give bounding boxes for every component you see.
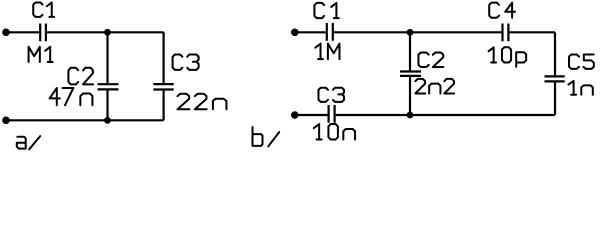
value M1 (circuit a C1): [29, 47, 53, 62]
capacitor C4 (circuit b) plates: [503, 24, 509, 42]
wire circuit b C5 branch lower: [554, 82, 556, 115]
name C3 (circuit b): [318, 88, 344, 102]
terminal node circuit a input top: [2, 29, 10, 37]
wire circuit b bottom rail left: [295, 114, 328, 116]
wire circuit a C3 branch upper: [163, 32, 165, 83]
wire circuit b bottom rail right: [336, 114, 555, 116]
terminal node circuit b input top: [291, 29, 299, 37]
capacitor C5 (circuit b) plates: [545, 76, 565, 81]
junction circuit b bottom: [407, 112, 414, 119]
value 1M (circuit b C1): [315, 44, 339, 60]
wire circuit b C2 branch lower: [409, 77, 411, 115]
wire circuit a C2 branch upper: [106, 32, 108, 83]
junction circuit a top: [104, 29, 111, 36]
capacitor C3 (circuit b) plates: [329, 105, 335, 123]
capacitor C3 (circuit a) plates: [153, 84, 173, 89]
label b/ (sub-figure b): [253, 127, 280, 146]
value 22n (circuit a C3): [177, 94, 226, 110]
capacitor C1 (circuit b) plates: [327, 23, 333, 41]
capacitor C2 (circuit b) plates: [400, 72, 421, 76]
name C2 (circuit a): [68, 68, 93, 85]
name C5 (circuit b): [569, 54, 594, 68]
wire circuit a C3 branch lower: [163, 91, 165, 121]
value 10n (circuit b C3): [314, 124, 355, 140]
wire circuit b top rail left: [295, 31, 326, 33]
wire circuit b top rail right: [509, 31, 555, 33]
name C4 (circuit b): [489, 3, 515, 18]
value 47n (circuit a C2): [50, 88, 93, 105]
name C2 (circuit b): [418, 52, 443, 67]
wire circuit b top rail middle: [334, 31, 502, 33]
wire circuit a top rail left: [6, 31, 39, 33]
junction circuit a bottom: [104, 117, 111, 124]
wire circuit a bottom rail: [6, 119, 164, 121]
value 2n2 (circuit b C2): [415, 79, 454, 94]
name C3 (circuit a): [173, 55, 199, 70]
capacitor C2 (circuit a) plates: [98, 84, 119, 89]
wire circuit a C2 branch lower: [106, 90, 108, 120]
junction circuit b top: [407, 29, 414, 36]
wire circuit b C2 branch upper: [409, 32, 411, 70]
value 10p (circuit b C4): [489, 47, 527, 67]
value 1n (circuit b C5): [568, 81, 592, 95]
wire circuit b C5 branch upper: [554, 32, 556, 75]
terminal node circuit a input bottom: [2, 117, 10, 125]
wire circuit a top rail right: [47, 31, 164, 33]
terminal node circuit b input bottom: [291, 111, 299, 119]
capacitor C1 (circuit a) plates: [40, 24, 46, 42]
name C1 (circuit b): [314, 3, 339, 18]
name C1 (circuit a): [33, 2, 54, 16]
label a/ (sub-figure a): [17, 136, 40, 149]
